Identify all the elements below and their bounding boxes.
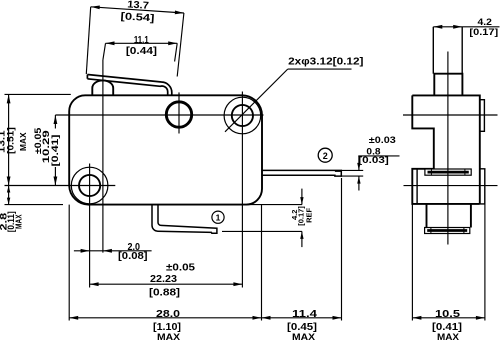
svg-text:MAX: MAX [19, 132, 28, 151]
svg-text:[0.41]: [0.41] [50, 135, 60, 167]
svg-text:±0.05: ±0.05 [166, 263, 196, 274]
svg-text:[0.54]: [0.54] [120, 11, 154, 24]
svg-text:MAX: MAX [292, 332, 315, 341]
svg-text:[0.88]: [0.88] [149, 288, 180, 299]
svg-text:REF: REF [305, 207, 314, 222]
svg-text:4.2: 4.2 [478, 17, 492, 27]
svg-text:13.7: 13.7 [127, 0, 150, 12]
svg-text:[0.03]: [0.03] [358, 155, 389, 165]
svg-text:[0.51]: [0.51] [5, 127, 15, 154]
svg-text:11.4: 11.4 [292, 309, 318, 320]
svg-text:10.5: 10.5 [435, 309, 461, 320]
svg-text:[0.08]: [0.08] [118, 251, 148, 262]
svg-text:2xφ3.12[0.12]: 2xφ3.12[0.12] [288, 57, 363, 68]
svg-text:[0.44]: [0.44] [126, 46, 157, 57]
svg-text:MAX: MAX [15, 214, 24, 229]
svg-text:11.1: 11.1 [134, 35, 149, 46]
svg-text:28.0: 28.0 [156, 309, 181, 320]
svg-text:±0.03: ±0.03 [369, 135, 396, 145]
svg-text:[0.17]: [0.17] [469, 27, 498, 37]
svg-text:1: 1 [216, 212, 221, 222]
svg-text:MAX: MAX [437, 332, 459, 341]
svg-text:22.23: 22.23 [150, 274, 177, 285]
svg-text:MAX: MAX [157, 332, 180, 341]
svg-text:2: 2 [323, 151, 328, 161]
